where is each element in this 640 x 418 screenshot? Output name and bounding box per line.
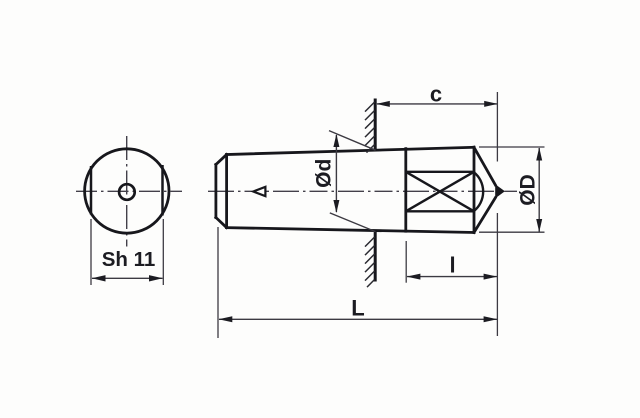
Ød top oblique extension line [329,131,376,151]
pin top taper line [227,147,474,154]
end view: inner hole circle [119,184,135,200]
dimension l line [407,276,497,278]
pin top chamfer [216,155,227,165]
Ød bottom arrowhead [333,200,339,213]
svg-text:ØD: ØD [517,174,540,206]
Sh 11 right extension line [162,219,164,285]
pin small-end chamfer edge line [225,155,228,228]
Sh 11 left extension line [90,219,92,285]
svg-text:c: c [430,81,442,106]
Ød top arrowhead [333,134,339,147]
ØD top extension line [479,146,545,148]
L left arrowhead [219,316,233,322]
tip extension line upper segment [496,92,498,162]
svg-text:l: l [449,253,455,278]
Sh 11 right arrowhead [149,275,163,281]
end view: vertical centerline [126,136,128,247]
tip point [495,184,505,198]
hatching lower [365,237,375,287]
L right arrowhead [484,316,498,322]
gauge plane line lower segment [374,230,377,281]
knurl diagonal 1 [406,172,474,212]
dimension L left extension line [217,227,219,338]
pin bottom chamfer [216,218,227,228]
main view: horizontal centerline [208,190,517,192]
svg-text:Ød: Ød [313,159,336,188]
dimension ØD line [538,148,540,232]
svg-text:Sh 11: Sh 11 [102,248,156,271]
knurl section right edge [473,147,476,232]
knurl band top line [406,171,474,173]
knurl band bottom line [406,210,474,212]
pin bottom taper line [227,228,474,233]
knurl diagonal 2 [406,172,474,212]
tip extension line lower segment [496,213,498,336]
Ød bottom oblique extension line [330,213,376,232]
pin small-end face [214,165,217,218]
end view: right flat [161,165,164,216]
dimension L line [219,318,497,320]
dimension l left extension line [405,241,407,283]
end view: left flat [90,166,93,215]
ØD top arrowhead [536,147,542,160]
dome bottom slant [474,198,495,233]
dome top slant [474,147,495,185]
ØD bottom extension line [479,231,545,233]
end view: horizontal centerline [76,190,182,192]
knurl section left edge [404,149,407,232]
end view: outer circle [85,149,169,233]
gauge plane line upper segment [374,99,377,151]
hatching upper [365,102,375,153]
ØD bottom arrowhead [536,219,542,232]
l right arrowhead [484,274,498,280]
Sh 11 dimension line [92,277,163,279]
taper direction symbol (open triangle on centerline) [253,187,265,196]
c left arrowhead [376,101,390,107]
Sh 11 left arrowhead [92,275,106,281]
dimension c line [377,103,497,105]
c right arrowhead [484,101,498,107]
l left arrowhead [407,274,421,280]
dome profile arc [474,172,483,211]
dimension Ød line [335,135,337,212]
svg-text:L: L [351,296,364,321]
